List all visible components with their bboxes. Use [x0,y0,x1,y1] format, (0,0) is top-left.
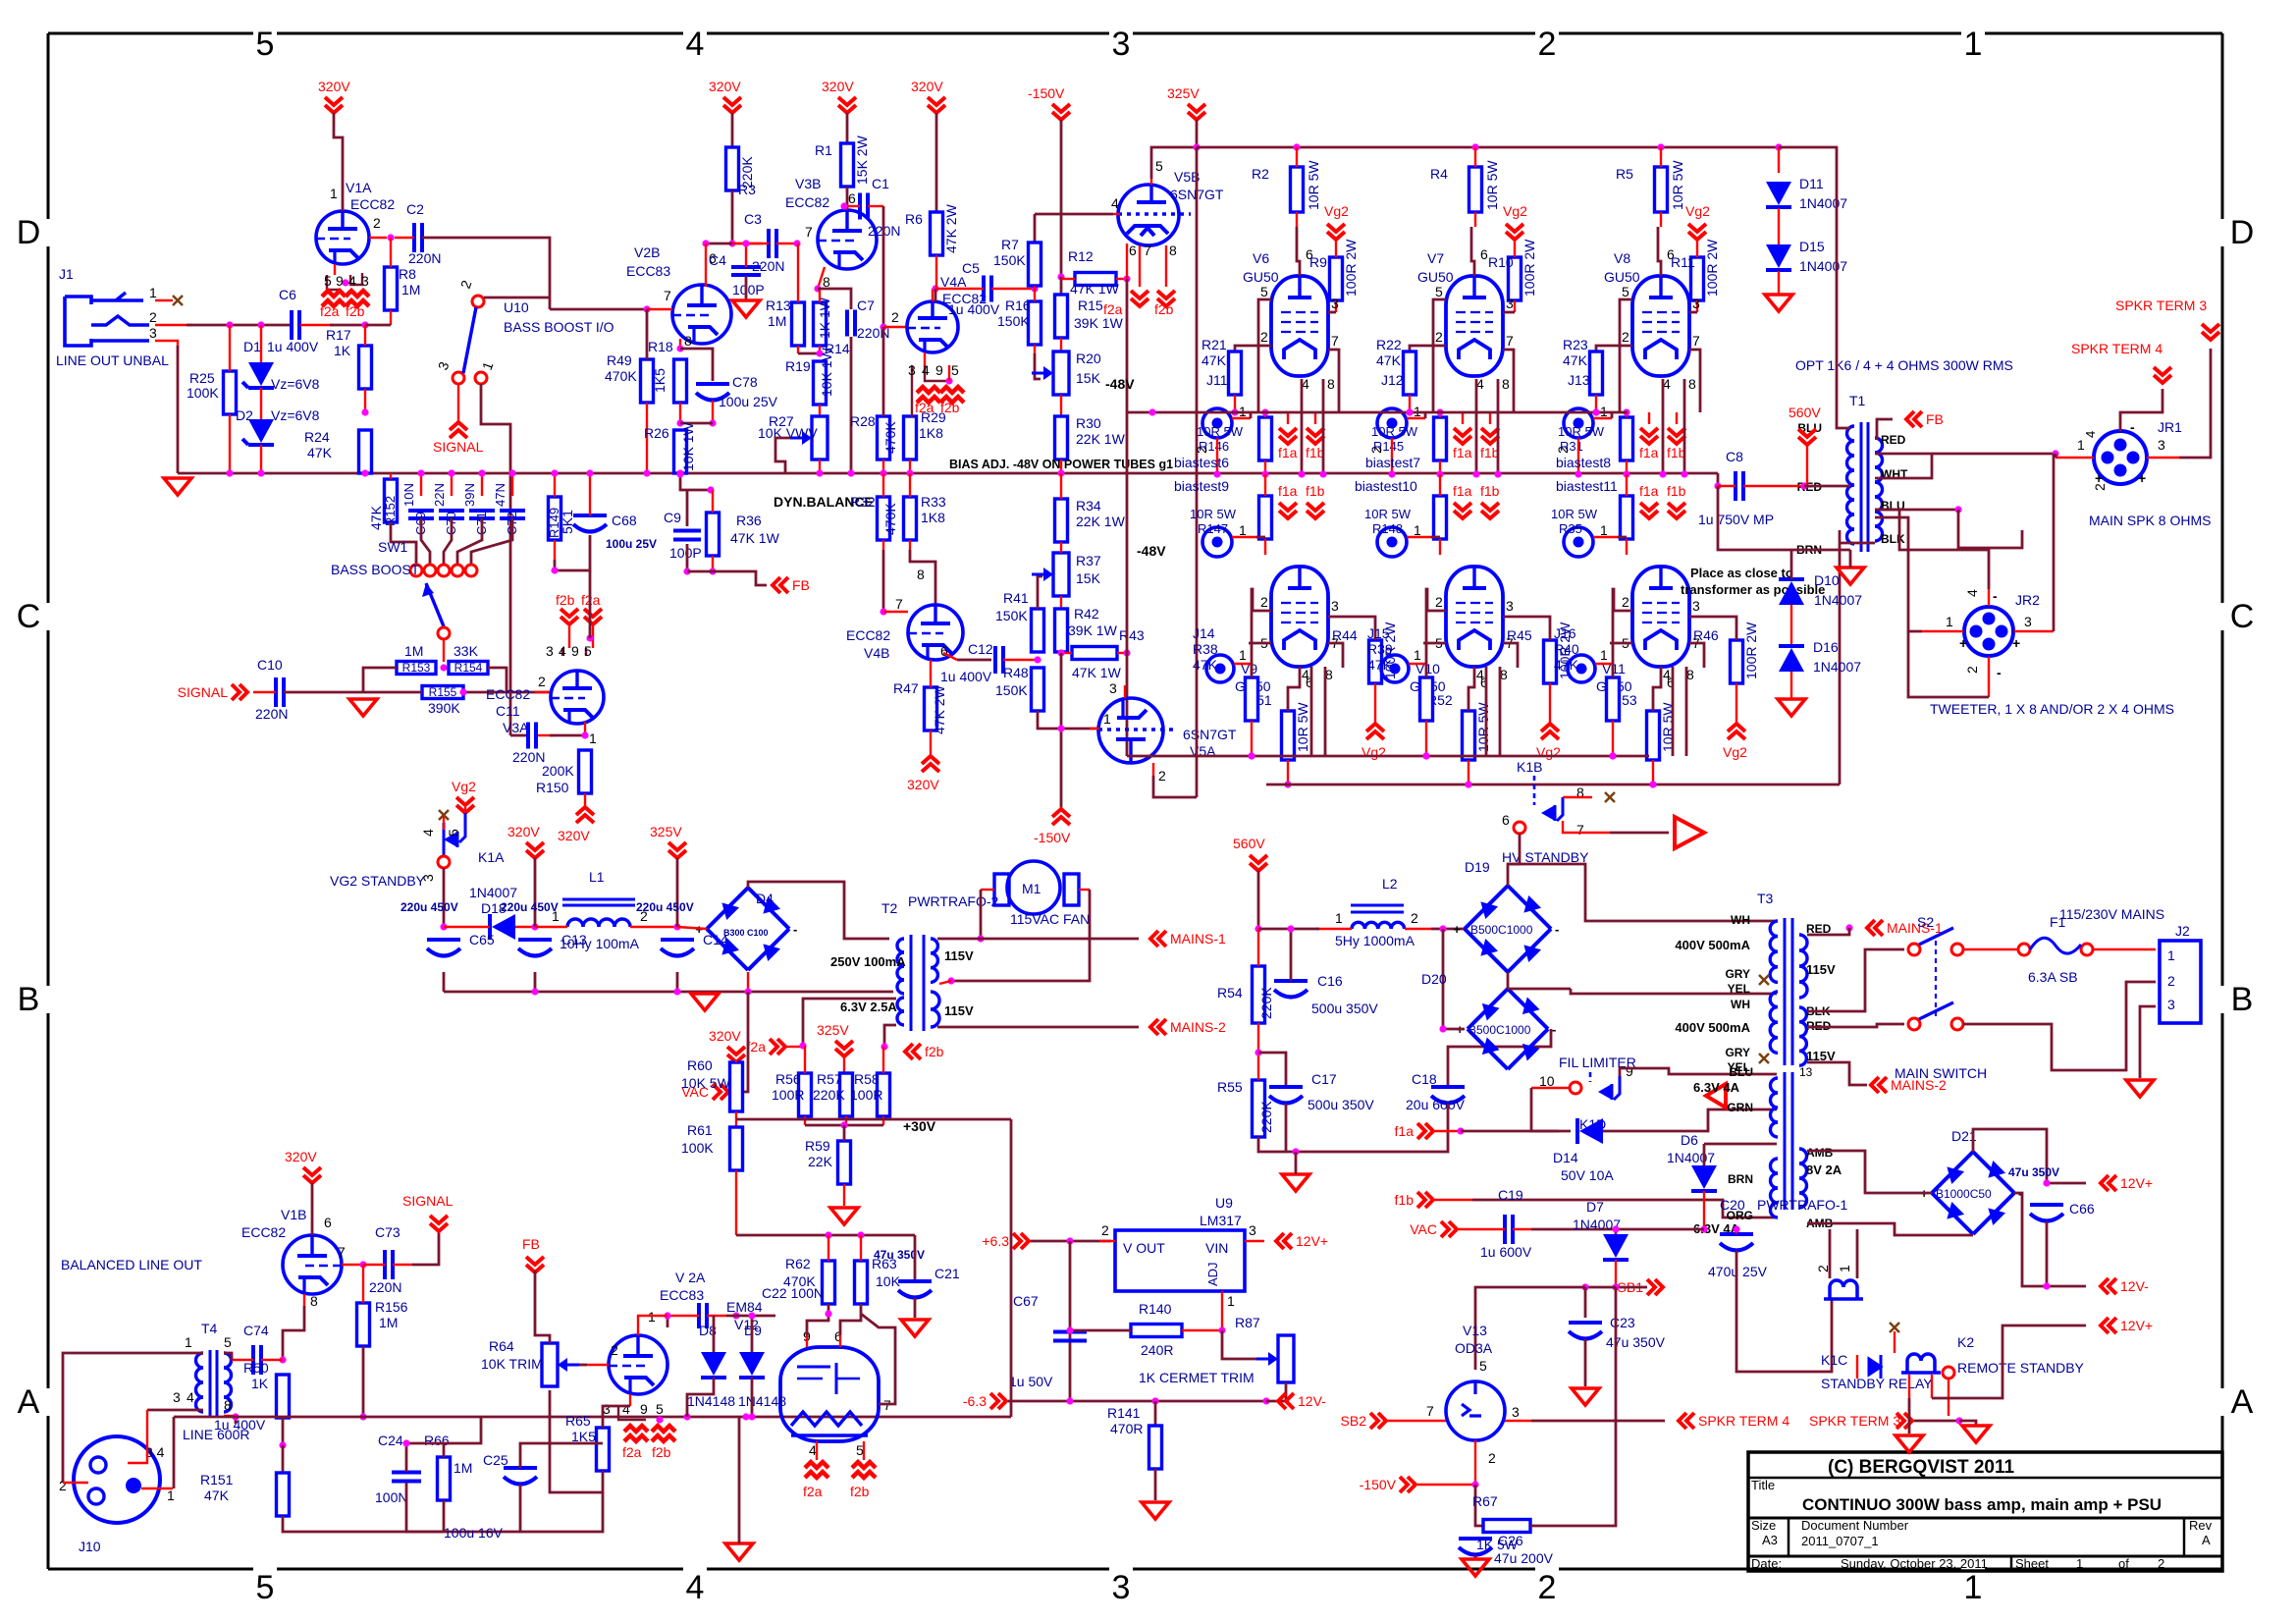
label C20 value [1708,1264,1768,1279]
label R47 [893,680,947,734]
label biastest8 [1556,455,1611,470]
power 320V at V1A [318,79,350,113]
svg-text:VIN: VIN [1205,1240,1228,1256]
label R5 [1616,160,1685,210]
label K2 [1957,1334,1974,1350]
resistor R57 [840,1073,853,1116]
svg-text:115V: 115V [1806,962,1836,977]
capacitor C71 [469,511,495,518]
svg-text:R64: R64 [489,1338,514,1354]
svg-text:220N: 220N [369,1279,401,1295]
junction V1B out [359,1261,366,1268]
lead V13 pin3 [1505,1420,1531,1422]
wire T1 WHT out [1875,454,1932,478]
svg-text:5Hy 1000mA: 5Hy 1000mA [1335,933,1415,948]
potentiometer R20 [1032,352,1069,395]
wire spkr3 to relay [1914,1420,1959,1423]
svg-text:D19: D19 [1465,859,1490,875]
svg-text:100R 2W: 100R 2W [1343,239,1359,297]
connector biastest9 jack V7 [1377,527,1407,557]
junction -6.3 R141 [1151,1397,1158,1404]
lead R13 top [797,243,799,302]
resistor R16 [1029,301,1041,345]
wire cathode to C78 [680,349,713,381]
lead D11-D15 [1778,208,1780,245]
label T3 GRY a [1725,967,1750,981]
lead D1-D2 [260,388,262,419]
svg-text:FB: FB [522,1236,540,1252]
pin 1 K1C [1837,1265,1852,1272]
junction D19 left [1439,925,1446,932]
wire C69 bottom to SW1 [421,518,430,565]
resistor R154 [449,661,488,675]
svg-text:9: 9 [571,643,579,659]
wire T4 pin5 wire [224,1353,232,1360]
svg-text:3: 3 [546,643,554,659]
resistor R24 [304,429,372,473]
svg-text:4: 4 [1302,667,1309,682]
svg-text:4: 4 [420,829,436,837]
label PT1 8V2A [1806,1163,1842,1177]
wire R67 right up [1530,1287,1616,1526]
wire C25 top [520,1443,603,1468]
wire T1 RED out [1875,453,2056,456]
wire T2 6.3V top tap [803,999,896,1046]
label T3 BLK r [1806,1004,1831,1018]
label R156 [375,1299,408,1330]
svg-text:15K: 15K [1076,370,1101,386]
svg-text:560V: 560V [1233,836,1265,851]
wire R36 to FB [687,571,767,585]
svg-text:115VAC FAN: 115VAC FAN [1010,911,1090,927]
junction R17-R24 [361,408,368,415]
svg-text:4: 4 [686,1569,705,1606]
pin 3 V11 [1692,598,1700,614]
junction D7 top [1612,1225,1619,1232]
label SPKR TERM 4 top [2071,341,2163,356]
lead biasR V8 top [1626,412,1628,417]
wire R16 to R20 arm [1035,353,1041,379]
lead D6 bottom [1703,1191,1705,1229]
resistor R155 [422,685,463,699]
svg-text:220K: 220K [739,156,755,189]
svg-text:1K8: 1K8 [919,425,943,441]
power Vg2 under R45 [1536,724,1561,760]
svg-text:6: 6 [324,1215,332,1230]
svg-text:BRN: BRN [1728,1172,1753,1186]
relay contact K1B [1534,776,1563,821]
junction grid bus c [1592,408,1599,415]
svg-text:47u 350V: 47u 350V [2008,1165,2059,1179]
wire V9 pin7 stub [1328,643,1343,668]
label C67 [1009,1293,1053,1389]
junction plate bus R5 [1657,143,1664,150]
pin 3 V13 [1512,1404,1520,1420]
label R30 [1076,415,1126,447]
pin9 V3A top [571,643,579,659]
label bias low V6 [1190,507,1237,536]
power 560V PSU [1233,836,1267,871]
pin 3 V7 [1506,296,1514,311]
wire R155 right [463,691,551,694]
junction f1a [1457,1127,1464,1134]
svg-text:320V: 320V [709,1028,741,1044]
pin 7 V4B [895,596,903,612]
pin 1 JR2 [1946,614,1953,629]
svg-text:47K: 47K [368,505,384,530]
label f1a2 V6 [1278,483,1298,499]
wire 560V down [1257,871,1260,929]
pin 3 U9 [1249,1222,1256,1238]
lead VIN [1245,1240,1264,1242]
wire V10 pin7 stub [1503,643,1518,668]
resistor R19 [814,361,827,405]
lead C1 left [847,205,860,207]
wire D20 left [1443,1028,1465,1031]
connector jack J14 [1206,655,1234,682]
wire R64 bottom [549,1390,552,1417]
label SW1 name [331,562,420,577]
svg-text:f2b: f2b [925,1044,944,1059]
label REMOTE STANDBY [1957,1360,2085,1376]
svg-text:1: 1 [1227,1293,1235,1309]
resistor R10 [1509,257,1522,300]
svg-text:R41: R41 [1003,590,1029,606]
wire D21 top out [1973,1129,2086,1183]
junction L1 C14 [673,923,680,930]
pin 1 V2A [648,1309,656,1325]
label C20 [1720,1197,1745,1213]
offpage 12V- right [2101,1278,2149,1294]
fuse F1 [2018,938,2093,955]
pin5 V3A top [584,643,592,659]
wire jack J11 to grid bus [1250,412,1253,418]
lead R23 bottom [1595,395,1597,412]
wire cathode bus [1266,784,1840,786]
pin 6 V5B [1129,243,1137,258]
text place close b [1681,582,1825,597]
svg-text:RED: RED [1881,433,1906,447]
offpage -150V at V13 [1360,1477,1415,1492]
label R29 [919,409,946,441]
text -48V lower [1137,543,1166,559]
svg-text:47K: 47K [307,445,333,460]
label bias top V8 [1558,424,1605,454]
offpage VAC PSU [681,1084,728,1100]
diode D15 [1766,239,1847,274]
label MAIN SWITCH [1895,1065,1987,1081]
capacitor C26 [1459,1539,1492,1555]
label T2 250V [830,954,906,969]
pin 2 V3A [538,674,546,689]
svg-text:D16: D16 [1813,639,1839,655]
offpage SB2 [1341,1413,1386,1429]
junction V2B grid node [643,305,650,312]
svg-text:C3: C3 [744,211,762,227]
svg-text:1M: 1M [404,643,423,659]
junction plate bus D11 [1775,143,1782,150]
capacitor C3 [744,211,784,274]
svg-text:SPKR TERM 4: SPKR TERM 4 [1698,1413,1789,1429]
capacitor C74 [214,1323,269,1433]
pin 1 J10 [167,1488,175,1503]
label R26 [644,421,696,471]
wire R152 bottom to SW1 [391,522,416,565]
text place close a [1690,566,1793,580]
svg-text:1N4148: 1N4148 [738,1393,786,1409]
pin 4 V10 [1476,667,1484,682]
lead R11 bottom [1696,300,1698,312]
svg-text:R57: R57 [817,1071,842,1087]
label MAIN SPK [2089,513,2211,528]
pin 3 V2A [603,1401,611,1417]
ground under D15 [1765,295,1792,311]
svg-text:560V: 560V [1789,405,1821,420]
capacitor C22 [699,1303,707,1328]
lead R11 top [1696,240,1698,257]
offpage 12V+ at K2 [2101,1318,2153,1333]
svg-text:10K TRIM: 10K TRIM [481,1356,543,1372]
svg-text:f1a: f1a [1639,445,1659,460]
svg-text:f1a: f1a [1453,483,1472,499]
wire spkr3 to ground [1959,1421,1976,1426]
svg-text:PWRTRAFO-1: PWRTRAFO-1 [1757,1197,1848,1213]
ground on PSU bottom bus [691,994,719,1010]
wire bus to C9 node [680,474,711,490]
pin 5 V9 [1260,635,1268,651]
wire lower grid bias bus [1127,755,1649,758]
resistor R8 [385,266,417,310]
wire T4 pin34 wire [147,1409,203,1412]
wire V1A pin loop2 [350,273,362,285]
svg-text:WH: WH [1731,998,1750,1011]
pin 5 V5B [1155,158,1163,174]
offpage f2b at V12 [850,1462,876,1499]
svg-text:10Hy 100mA: 10Hy 100mA [560,936,640,951]
label U9 type [1200,1213,1242,1228]
svg-text:325V: 325V [1167,85,1200,101]
label R36 [730,513,780,546]
svg-text:Vg2: Vg2 [1536,744,1561,760]
wire FB to T1 RED right [1877,419,1893,440]
svg-text:J1: J1 [59,266,74,282]
svg-text:220u 450V: 220u 450V [501,900,559,914]
svg-text:R11: R11 [1671,254,1695,270]
wire 320V to C13 node [534,858,537,927]
svg-text:OPT 1K6 / 4 + 4 OHMS 300W RMS: OPT 1K6 / 4 + 4 OHMS 300W RMS [1795,357,2013,373]
wire C11 left [510,734,526,737]
lead R156 top [362,1265,364,1303]
pin 8 V2B [684,333,692,349]
wire -48V vertical [1126,279,1129,412]
svg-text:9: 9 [640,1401,648,1417]
label T1 BLU right [1881,499,1905,513]
label R17 value [334,343,351,358]
svg-text:C19: C19 [1498,1187,1523,1203]
svg-text:R47: R47 [893,680,919,696]
lead R27 bottom [819,460,821,473]
lead jack2 V6 pin1 [1232,536,1256,538]
label V1A [346,180,372,195]
svg-text:SIGNAL: SIGNAL [433,439,484,455]
switch K1D circle [1570,1082,1581,1094]
wire V3A heater loop [561,648,563,656]
transformer PT1 w3 8V [1799,1149,1807,1208]
wire C6 to R17 node [330,324,367,327]
svg-text:C18: C18 [1412,1071,1437,1087]
svg-text:9: 9 [935,362,943,378]
svg-text:400V 500mA: 400V 500mA [1675,1020,1750,1035]
wire C7 down [850,337,853,422]
junction C12-R41-R48 [1034,656,1041,663]
svg-text:47K 1W: 47K 1W [730,530,780,546]
resistor R4 [1469,167,1482,212]
power 320V under R47 [907,756,939,792]
label T3 400V a [1675,938,1750,952]
lead f1a V8 [1648,412,1650,424]
svg-text:4: 4 [1476,667,1484,682]
svg-text:V2B: V2B [634,244,660,260]
lead K1B pin7 [1563,821,1610,833]
lead R8 bottom [390,310,392,325]
svg-text:biastest10: biastest10 [1355,478,1417,494]
pin 2 V11 [1622,594,1629,610]
lead biasR V8 bottom [1626,460,1628,474]
svg-text:YEL: YEL [1728,982,1750,996]
capacitor C67 [1053,1332,1087,1341]
junction D9 bus [748,1413,755,1420]
svg-text:ECC82: ECC82 [350,196,395,212]
wire T2 115V top to MAINS-1 [937,938,1139,941]
transformer T3 core [1785,918,1792,1065]
lead V3B cathode [818,267,825,289]
junction cathode bus V10 [1465,781,1471,787]
power Vg2 at R11 [1685,203,1710,240]
wire V7 pin4 down [1475,379,1478,474]
label U10 name [504,319,614,335]
wire bus segment right [1010,1119,1013,1417]
wire V4A pin loop a [911,365,913,417]
svg-text:C67: C67 [1013,1293,1039,1309]
svg-text:500u 350V: 500u 350V [1308,1097,1374,1112]
lead jack J16 [1595,664,1613,677]
offpage f2a at V3A [584,609,602,624]
svg-text:C7: C7 [857,298,875,313]
lead biasR2 V7 top [1439,474,1441,496]
label R33 [921,494,946,525]
label R61 [681,1122,714,1156]
label C9 [664,510,702,561]
wire V4B cathode to C12 [957,659,991,662]
wire C23 node to V13 pin5 [1475,1287,1585,1370]
svg-text:325V: 325V [817,1022,849,1038]
pin 2 J10 [59,1478,67,1493]
lead R14 top [819,289,821,302]
svg-text:D10: D10 [1814,572,1840,588]
pin 3 V10 [1506,598,1514,614]
svg-text:SW1: SW1 [378,539,408,555]
label R154 value [454,643,479,659]
label STANDBY RELAY [1821,1376,1933,1391]
wire T1 left BLU ground col [1849,550,1852,568]
svg-text:7: 7 [1506,333,1514,349]
ground PSU middle [1282,1174,1309,1191]
svg-text:220u 450V: 220u 450V [400,900,458,914]
svg-text:1u 600V: 1u 600V [1480,1244,1532,1260]
offpage 12V+ right [2101,1175,2153,1191]
label R18 [648,339,673,354]
svg-text:22K: 22K [808,1154,833,1169]
label R9 [1309,239,1359,297]
svg-text:V13: V13 [1463,1323,1487,1338]
lead jack V8 pin2 down [1577,438,1579,474]
svg-text:R147: R147 [1198,521,1228,536]
pin 2 V8 [1622,329,1629,345]
svg-text:BALANCED LINE OUT: BALANCED LINE OUT [61,1257,202,1272]
svg-text:2: 2 [1101,1222,1109,1238]
svg-text:MAINS-1: MAINS-1 [1887,920,1943,936]
capacitor C19 [1505,1215,1513,1244]
label V3A type [486,686,530,702]
pin 8 T4 [224,1397,232,1413]
label D6 [1681,1132,1698,1148]
junction C20 top [1733,1225,1739,1232]
wire K1C coil feed2 [1856,1229,1859,1278]
svg-text:Size: Size [1751,1518,1776,1533]
svg-text:BASS BOOST I/O: BASS BOOST I/O [504,319,614,335]
lead R56 bottom [804,1116,806,1125]
svg-text:10R 5W: 10R 5W [1475,702,1491,752]
transformer T1 secondary winding [1875,438,1883,541]
offpage MAINS-1 left [1150,931,1226,947]
svg-text:T4: T4 [201,1321,218,1336]
wire C25 bottom [520,1485,603,1532]
svg-text:2: 2 [1158,768,1166,784]
rectifier bridge D4 [695,888,797,970]
svg-text:3: 3 [2024,614,2032,629]
wire V9 pin4 down [1310,667,1313,756]
svg-text:39K 1W: 39K 1W [1074,315,1124,331]
svg-text:Vz=6V8: Vz=6V8 [271,376,320,392]
resistor bias low V7 [1434,496,1447,539]
svg-text:R33: R33 [921,494,946,510]
svg-text:39K 1W: 39K 1W [1068,622,1118,638]
lead L1 right [630,926,677,928]
svg-text:C74: C74 [243,1323,269,1338]
pin 1 jack J12 [1414,404,1421,419]
connector J2 [2160,941,2201,1023]
resistor R15 [1055,295,1068,338]
svg-text:AMB: AMB [1806,1146,1834,1160]
lead f1b V7 [1489,412,1491,424]
wire V2A cathode to R65 [603,1406,630,1428]
pin 2 jack V8 [1555,446,1571,454]
svg-text:2: 2 [149,309,157,325]
svg-text:f2b: f2b [940,400,960,415]
junction R30 bus [1057,469,1064,476]
label R19 [785,347,834,397]
resistor R49 [607,352,654,403]
wire V9 pin5 stub [1249,642,1271,645]
power 320V at R1 [822,79,856,113]
junction C68 bus [586,469,593,476]
junction pin4 bus V6 [1298,470,1305,477]
tube V8 GU50 [1632,276,1689,376]
resistor R6 [905,203,959,255]
svg-text:2: 2 [59,1478,67,1493]
junction R3-C3 node [728,240,735,246]
wire K1B to open arrow [1610,832,1669,835]
